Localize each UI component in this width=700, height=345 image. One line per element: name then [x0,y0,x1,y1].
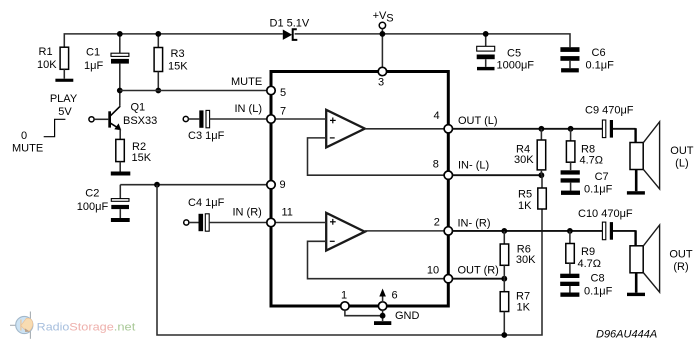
pin 9 [267,181,275,189]
wire pin6 to gnd junction [382,310,384,321]
pin 7 [267,115,275,123]
capacitor C2 [111,185,129,218]
label R4 30K [514,144,534,167]
resistor R1 [60,47,69,78]
svg-text:C3 1μF: C3 1μF [188,130,225,142]
svg-text:10: 10 [427,265,439,277]
svg-text:15K: 15K [132,152,152,164]
node junction C1/mute line [117,88,123,94]
svg-text:30K: 30K [516,254,536,266]
capacitor C5 [477,34,495,67]
resistor R6 [500,231,509,279]
svg-text:1: 1 [341,290,347,302]
svg-text:C5: C5 [507,47,521,59]
node junction +VS rail [380,31,386,37]
capacitor C9 [602,120,635,143]
zener diode D1 [283,29,298,40]
svg-text:C10 470μF: C10 470μF [578,208,633,220]
terminal C3 input [183,116,188,121]
svg-text:6: 6 [392,290,398,302]
svg-text:OUT (L): OUT (L) [458,115,498,127]
capacitor C3 [189,110,267,127]
wire pin7 to +input [271,118,326,120]
wire +VS down to pin 3 [381,29,383,68]
wire base input [94,118,108,120]
svg-text:+V: +V [373,10,387,22]
svg-text:1μF: 1μF [84,60,103,72]
svg-text:C7: C7 [595,171,609,183]
node junction R3 top [155,31,161,37]
capacitor C1 [111,34,129,106]
wire IN-(R) line [453,230,603,232]
label C8 0.1uF [584,273,613,298]
svg-text:0: 0 [21,130,27,142]
op-amp U1b [326,213,365,251]
svg-text:C6: C6 [592,47,606,59]
svg-text:4: 4 [434,110,440,122]
svg-text:1000μF: 1000μF [497,59,535,71]
svg-text:(R): (R) [673,261,688,273]
svg-text:C1: C1 [86,47,100,59]
RadioStorage.net text [37,322,136,334]
node junction C5 top [483,31,489,37]
svg-text:OUT: OUT [669,249,693,261]
capacitor C4 [189,214,267,231]
wire IN-(L) line [453,174,542,176]
pin 2 [444,227,452,235]
node junction rail tap [154,182,160,188]
wire pin9 line [120,184,266,186]
RadioStorage.net logo [10,312,33,339]
speaker OUT L [630,122,660,191]
label C2 100uF [77,187,109,213]
svg-text:S: S [386,13,393,25]
label R8 4.7ohm [580,144,604,167]
svg-text:IN (R): IN (R) [233,207,262,219]
op-amp U1a [326,110,365,148]
svg-text:Q1: Q1 [131,102,146,114]
ground under C6 [561,68,579,72]
arrow pin 6 [379,289,386,303]
svg-text:0.1μF: 0.1μF [584,286,613,298]
ground under pin 6 [374,321,391,325]
pin 3 [378,67,386,75]
svg-text:GND: GND [395,310,420,322]
capacitor C8 [560,274,579,293]
label OUT (R) speaker [669,249,693,274]
IC amplifier box [271,72,448,307]
wire top supply rail [64,34,570,47]
ground under speaker R [627,293,645,296]
capacitor C10 [602,222,635,246]
wire pin1 to gnd junction [345,310,383,316]
capacitor C7 [561,170,580,191]
pin 8 [444,171,452,179]
svg-text:Storage: Storage [69,322,114,334]
node junction R3/mute line [155,88,161,94]
svg-text:9: 9 [280,179,286,191]
svg-text:D1 5.1V: D1 5.1V [270,18,310,30]
svg-text:BSX33: BSX33 [123,115,157,127]
ground under C7 [561,191,580,195]
svg-text:OUT (R): OUT (R) [458,265,499,277]
terminal C4 input [184,220,189,225]
ground under R2 [111,172,131,176]
label C7 0.1uF [584,171,613,196]
label 0 MUTE [12,130,43,155]
svg-text:MUTE: MUTE [12,143,43,155]
label R6 30K [516,244,536,267]
terminal mute input [89,117,94,122]
svg-text:R3: R3 [171,48,185,60]
transistor Q1 [108,106,121,140]
wire U1b output to pin 2 [365,230,449,232]
label R9 4.7ohm [578,246,602,270]
svg-text:IN- (R): IN- (R) [458,218,491,230]
wire bottom feedback rail [157,185,542,335]
svg-text:3: 3 [378,77,384,89]
svg-text:C2: C2 [85,187,99,199]
label +VS [373,10,394,24]
svg-text:0.1μF: 0.1μF [586,59,615,71]
wire OUT(L) line [453,128,603,130]
pin 11 [267,218,275,226]
svg-text:15K: 15K [168,61,188,73]
node junction R6 top [501,228,507,234]
label C6 0.1uF [586,47,615,71]
svg-text:5V: 5V [58,106,72,118]
resistor R9 [566,231,575,274]
wire MUTE line to pin 5 [120,90,267,92]
label R1 10K [37,46,57,71]
label R3 15K [168,48,188,73]
svg-text:4.7Ω: 4.7Ω [580,155,604,167]
resistor R8 [566,129,575,170]
svg-text:7: 7 [280,106,286,118]
svg-text:.net: .net [114,322,136,334]
resistor R4 [537,129,546,175]
svg-text:MUTE: MUTE [231,76,262,88]
svg-text:C9 470μF: C9 470μF [585,105,634,117]
node junction R6 bottom [501,276,507,282]
svg-text:C8: C8 [591,273,605,285]
label C5 1000uF [497,47,535,71]
node junction R9 top [567,228,573,234]
wire U1a output to pin 4 [365,128,449,130]
ground under C2 [111,218,130,222]
svg-text:R9: R9 [581,246,595,258]
label R7 1K [516,291,531,314]
svg-text:IN (L): IN (L) [235,103,263,115]
ground under C8 [560,293,579,297]
resistor R2 [116,139,125,171]
wire pin11 to +input [271,222,326,224]
ground under R1 [55,79,73,82]
node junction gnd [380,313,386,319]
label PLAY 5V [50,93,78,118]
pin 4 [444,125,452,133]
svg-text:30K: 30K [514,154,534,166]
wire U1a feedback to pin 8 [308,138,449,175]
svg-text:R5: R5 [518,189,532,201]
resistor R7 [500,279,509,335]
ground under speaker L [627,191,645,194]
svg-text:R1: R1 [39,46,53,58]
node junction R4 bottom [539,172,545,178]
svg-text:1K: 1K [518,200,532,212]
pin 1 [341,302,349,310]
svg-text:1K: 1K [517,302,531,314]
speaker OUT R [630,225,660,293]
label R2 15K [132,141,152,164]
svg-text:PLAY: PLAY [50,93,78,105]
resistor R3 [154,34,163,91]
svg-text:11: 11 [282,207,293,219]
svg-text:10K: 10K [37,59,57,71]
resistor R5 [538,175,547,209]
svg-text:2: 2 [434,217,440,229]
svg-text:0.1μF: 0.1μF [584,183,613,195]
label Q1 BSX33 [123,102,157,128]
svg-text:IN- (L): IN- (L) [458,160,489,172]
ground under C5 [477,67,495,70]
pin 5 [267,86,275,94]
svg-text:Radio: Radio [37,322,70,334]
svg-text:C4 1μF: C4 1μF [188,197,225,209]
label C1 1uF [84,47,103,73]
svg-text:D96AU444A: D96AU444A [596,329,657,341]
svg-text:4.7Ω: 4.7Ω [578,258,602,270]
label OUT (L) speaker [670,145,694,170]
node junction R7 bottom [501,332,507,338]
svg-text:8: 8 [433,159,439,171]
svg-text:OUT: OUT [670,145,694,157]
play/mute step waveform symbol [44,119,66,136]
node junction C1 top [117,31,123,37]
svg-text:5: 5 [280,87,286,99]
pin 6 [378,302,386,310]
wire U1b feedback to pin 10 [308,241,449,278]
pin 10 [444,275,452,283]
svg-text:100μF: 100μF [77,201,109,213]
svg-text:(L): (L) [675,158,688,170]
capacitor C6 [560,47,579,68]
terminal +VS [379,22,385,28]
node junction R8 top [568,126,574,132]
wire OUT(R) line [453,278,505,280]
node junction R4 top [539,126,545,132]
label R5 1K [518,189,532,213]
